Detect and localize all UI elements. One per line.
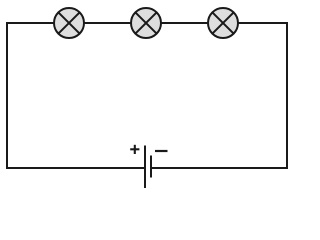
lamp L3 [208,8,238,38]
wire: left vertical [6,22,8,169]
wire: bottom left segment to battery positive plate [6,167,145,169]
wire: right vertical [286,22,288,169]
lamp L2 [131,8,161,38]
battery BT1: minus polarity label [155,150,168,152]
battery BT1: positive long plate [144,146,146,189]
battery BT1: plus polarity label [130,145,139,154]
wire: top horizontal [6,22,288,24]
lamp L1 [54,8,84,38]
battery BT1: negative short plate [150,156,152,178]
wire: bottom right segment from battery negative plate [151,167,288,169]
